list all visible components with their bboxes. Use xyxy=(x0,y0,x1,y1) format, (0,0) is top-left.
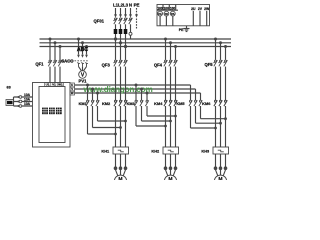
wire L1 to bus xyxy=(115,34,117,39)
svg-text:PA: PA xyxy=(171,12,175,16)
contactor KM4 pole 1 xyxy=(164,100,167,106)
contactor KM3 pole 1 xyxy=(134,84,137,107)
contactor KM4 pole 2 xyxy=(169,100,172,106)
contactor KM1 pole 1 xyxy=(86,84,89,107)
thermal relay KH3 label xyxy=(201,148,210,153)
circuit breaker QF4 pole 3 xyxy=(173,45,177,100)
svg-text:U1: U1 xyxy=(46,83,50,87)
wire relay outputs to motor M2 xyxy=(166,154,176,167)
svg-text:W: W xyxy=(71,91,74,95)
contactor KM2 pole 3 symbol xyxy=(124,100,127,106)
bus L2 horizontal xyxy=(40,42,232,44)
svg-text:QF3: QF3 xyxy=(102,63,111,68)
wire crossover KM3 to motor2 feed pole 1 xyxy=(136,106,167,127)
svg-text:L3: L3 xyxy=(123,2,129,7)
svg-text:100: 100 xyxy=(164,6,170,10)
circuit breaker QF1 label xyxy=(35,61,44,66)
svg-text:KM5: KM5 xyxy=(176,101,185,106)
svg-text:PA: PA xyxy=(165,12,169,16)
wire L3 below breaker xyxy=(125,24,127,29)
thermal relay KH1 box xyxy=(113,147,129,154)
contactor KM5 pole 1 xyxy=(189,85,192,106)
instrument panel cell dividers xyxy=(163,5,176,11)
wire incoming L2 drop with arrow xyxy=(119,8,122,18)
wire incoming L3 drop with arrow xyxy=(124,8,127,18)
VFD output terminal cells U V W xyxy=(70,83,75,95)
contactor KM2 pole 1 symbol xyxy=(114,100,117,106)
wire crossover KM5 to motor3 feed pole 3 xyxy=(201,106,227,120)
wire motor M3 leads xyxy=(216,170,226,176)
wire motor M1 leads xyxy=(116,170,126,176)
svg-text:2U: 2U xyxy=(191,7,196,11)
circuit breaker QF3 label xyxy=(102,63,111,68)
svg-text:KM2: KM2 xyxy=(102,101,111,106)
motor M3 terminal dots xyxy=(214,166,228,170)
circuit breaker QF3 pole 1 xyxy=(113,39,117,100)
svg-text:N: N xyxy=(129,2,132,7)
contactor KM4 label xyxy=(154,101,163,106)
wire L1 below breaker xyxy=(115,24,117,29)
svg-text:100: 100 xyxy=(170,6,176,10)
circuit breaker QF1 pole 1 xyxy=(48,60,52,66)
VFD output bus line U xyxy=(75,84,191,86)
circuit breaker QF01 label xyxy=(94,19,105,24)
contactor KM4 pole 1 symbol xyxy=(164,100,167,106)
current transformer CT on L3 xyxy=(124,29,128,34)
ground PE below instrument panel xyxy=(179,26,190,32)
thermal relay KH2 label xyxy=(151,148,160,153)
svg-text:M: M xyxy=(218,177,222,180)
svg-text:PA: PA xyxy=(158,12,162,16)
wire KM6 outputs to relay KH3 xyxy=(216,106,226,147)
svg-text:QF4: QF4 xyxy=(154,63,163,68)
contactor KM2 pole 1 xyxy=(114,100,117,106)
VFD input terminal labels U1 V1 W1 xyxy=(45,83,64,87)
svg-text:2W: 2W xyxy=(204,7,210,11)
wire L2 to bus xyxy=(120,34,122,43)
wire voltmeter drops with arrows xyxy=(77,39,88,58)
VFD output bus line V xyxy=(75,88,196,90)
wire crossover KM1 to motor1 feed pole 2 xyxy=(93,106,122,129)
wire converge to voltmeter xyxy=(79,67,87,71)
instrument panel box with ammeters xyxy=(157,5,210,26)
wire motor M2 leads xyxy=(166,170,176,176)
circuit breaker QF4 pole 1 xyxy=(163,38,167,101)
ammeter PA1 xyxy=(158,11,163,26)
instrument panel header line xyxy=(157,9,178,11)
contactor KM6 pole 2 symbol xyxy=(219,100,222,106)
svg-text:KM3: KM3 xyxy=(127,101,136,106)
svg-text:100: 100 xyxy=(157,6,163,10)
ammeter PA3 xyxy=(170,11,175,26)
voltmeter PV1 xyxy=(79,71,88,84)
VFD output bus line W xyxy=(75,92,201,94)
node ABC phase label xyxy=(77,47,88,53)
contactor KM1 label xyxy=(79,101,88,106)
circuit breaker QF3 pole 3 xyxy=(123,47,127,101)
junction dots QF1 taps xyxy=(49,38,62,49)
contactor KM5 pole 3 xyxy=(199,93,202,106)
contactor KM1 pole 3 xyxy=(96,92,99,107)
wire crossover KM5 to motor3 feed pole 2 xyxy=(196,106,222,125)
control wire 2 with arrow circle and 10A label xyxy=(14,97,33,102)
CT ratio labels 100 xyxy=(157,6,175,10)
svg-text:PE: PE xyxy=(179,28,184,32)
motor M2 terminal dots xyxy=(164,166,178,170)
contactor KM6 label xyxy=(202,101,211,106)
contactor KM6 pole 1 symbol xyxy=(214,100,217,106)
circuit breaker QF3 pole 2 xyxy=(118,43,122,100)
wire incoming PE drop dashed with arrow xyxy=(135,8,138,29)
node L1 L2 L3 N PE incoming labels xyxy=(113,2,140,7)
svg-text:PV1: PV1 xyxy=(79,79,88,84)
circuit breaker QF5 label xyxy=(204,62,213,67)
motor M3 circle xyxy=(214,175,226,187)
voltage sense line 2U xyxy=(191,7,196,26)
circuit breaker QF01 pole L3 xyxy=(123,18,127,24)
wire incoming N drop with arrow xyxy=(129,8,132,18)
svg-text:KM6: KM6 xyxy=(202,101,211,106)
wire L2 below breaker xyxy=(120,24,122,29)
contactor KM6 pole 1 xyxy=(214,100,217,106)
selector switch SACO label and dashed link xyxy=(61,58,88,63)
control wire 1 with arrow circle and 10A label xyxy=(14,93,33,98)
svg-text:10A: 10A xyxy=(24,102,31,106)
svg-text:2V: 2V xyxy=(198,7,203,11)
contactor KM3 pole 2 xyxy=(140,88,143,107)
current transformer CT on L1 xyxy=(114,29,118,34)
svg-text:SACO: SACO xyxy=(61,58,74,63)
circuit breaker QF01 pole L2 xyxy=(118,18,122,24)
circuit breaker QF4 label xyxy=(154,63,163,68)
svg-text:M: M xyxy=(168,177,172,180)
contactor KM2 pole 2 xyxy=(119,100,122,106)
circuit breaker QF5 pole 2 xyxy=(218,41,222,100)
wire crossover KM5 to motor3 feed pole 1 xyxy=(191,106,217,129)
contactor KM2 label xyxy=(102,101,111,106)
contactor KM4 pole 3 xyxy=(174,100,177,106)
circuit breaker QF01 pole N xyxy=(128,18,132,24)
terminal circle on N xyxy=(129,32,132,39)
svg-text:63: 63 xyxy=(7,85,11,89)
VFD name text bianpinqi glyphs xyxy=(42,108,62,115)
contactor KM6 pole 3 xyxy=(224,100,227,106)
circuit breaker QF5 pole 3 xyxy=(223,45,227,100)
control wire 3 with arrow circle and 10A label xyxy=(14,102,33,107)
svg-text:KH1: KH1 xyxy=(101,148,110,153)
wire crossover KM3 to motor2 feed pole 2 xyxy=(142,106,172,122)
circuit breaker QF1 pole 2 xyxy=(53,60,57,66)
wire L3 to bus xyxy=(125,34,127,47)
wire crossover KM1 to motor1 feed pole 1 xyxy=(88,106,117,135)
thermal relay KH1 label xyxy=(101,148,110,153)
contactor KM3 label xyxy=(127,101,136,106)
contactor KM5 label xyxy=(176,101,185,106)
watermark text xyxy=(83,85,153,94)
voltage sense line 2V xyxy=(198,7,203,26)
contactor KM2 pole 2 symbol xyxy=(119,100,122,106)
node 63 label xyxy=(7,85,11,89)
circuit breaker QF4 pole 2 xyxy=(168,41,172,100)
circuit breaker QF5 pole 1 xyxy=(213,38,217,101)
svg-text:10A: 10A xyxy=(24,97,31,101)
svg-text:KH2: KH2 xyxy=(151,148,160,153)
svg-text:ABC: ABC xyxy=(77,47,88,53)
contactor KM4 pole 3 symbol xyxy=(174,100,177,106)
bus L3 horizontal xyxy=(40,46,232,48)
wire KM2 outputs to relay KH1 xyxy=(116,106,126,147)
wire QF1 drops from buses xyxy=(50,39,60,60)
ammeter PA2 xyxy=(164,11,169,26)
circuit breaker QF01 pole L1 xyxy=(113,18,117,24)
wire QF1 to VFD input xyxy=(50,67,60,83)
control signal box xyxy=(6,100,14,106)
circuit breaker QF1 pole 3 xyxy=(58,60,62,66)
svg-text:QF01: QF01 xyxy=(94,19,105,24)
control signal connector xyxy=(13,97,15,106)
wire N below breaker xyxy=(130,24,132,32)
svg-text:M: M xyxy=(118,177,122,180)
current transformer CT on L2 xyxy=(119,29,123,34)
thermal relay KH3 box xyxy=(213,147,229,154)
wire relay outputs to motor M1 xyxy=(116,154,126,167)
wire KM4 outputs to relay KH2 xyxy=(166,106,176,147)
svg-text:PE: PE xyxy=(134,2,140,7)
selector switch contacts xyxy=(77,63,88,67)
junction dots voltmeter taps xyxy=(77,38,88,49)
svg-text:10A: 10A xyxy=(24,93,31,97)
contactor KM6 pole 3 symbol xyxy=(224,100,227,106)
contactor KM2 pole 3 xyxy=(124,100,127,106)
wire incoming L1 drop with arrow xyxy=(114,8,117,18)
VFD frequency converter outer box xyxy=(33,83,71,148)
contactor KM3 pole 3 xyxy=(145,92,148,107)
junction dots incoming to buses xyxy=(114,37,127,48)
wire relay outputs to motor M3 xyxy=(216,154,226,167)
contactor KM6 pole 2 xyxy=(219,100,222,106)
contactor KM5 pole 2 xyxy=(194,89,197,106)
wire crossover KM3 to motor2 feed pole 3 xyxy=(147,106,177,117)
svg-text:QF5: QF5 xyxy=(204,62,213,67)
svg-text:V1: V1 xyxy=(52,83,56,87)
motor M1 circle xyxy=(114,175,126,187)
motor M1 terminal dots xyxy=(114,166,128,170)
voltage sense line 2W xyxy=(204,7,210,26)
contactor KM4 pole 2 symbol xyxy=(169,100,172,106)
thermal relay KH2 box xyxy=(163,147,179,154)
svg-text:KM4: KM4 xyxy=(154,101,163,106)
contactor KM1 pole 2 xyxy=(91,88,94,107)
svg-text:QF1: QF1 xyxy=(35,61,44,66)
motor M2 circle xyxy=(164,175,176,187)
VFD inner box xyxy=(39,87,65,143)
bus L1 horizontal xyxy=(40,38,232,40)
svg-text:W1: W1 xyxy=(58,83,63,87)
wire crossover KM1 to motor1 feed pole 3 xyxy=(98,106,127,122)
svg-text:KH3: KH3 xyxy=(201,148,210,153)
